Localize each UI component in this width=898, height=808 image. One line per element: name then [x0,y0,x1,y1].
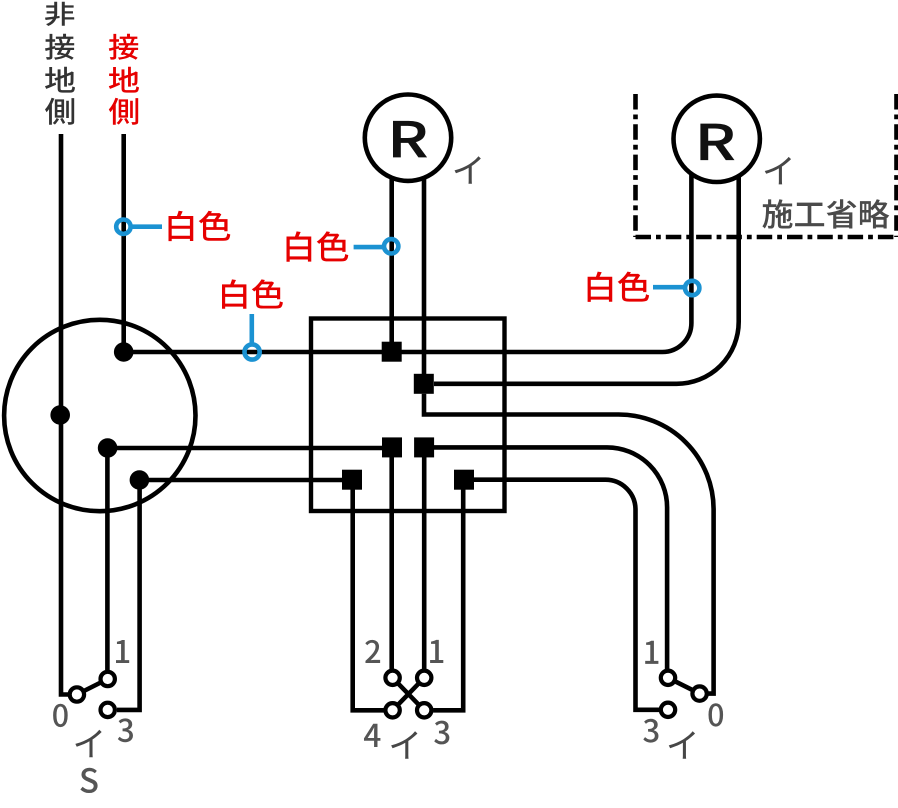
label white-color #4 (red) [588,272,649,302]
pin number 1 4-way [430,640,443,663]
white-conductor marker leader line (vertical) [250,314,255,344]
label non-grounded char 2 [45,34,74,60]
wire 4-way switch terminal 4 lead [353,480,384,710]
label white-color #1 (red) [168,211,230,241]
lamp R2 letter R [700,124,734,161]
4-way switch terminal 3 [417,703,431,717]
terminal square: lamp leads junction [414,374,434,394]
lamp R2 (round lampholder) circle [674,96,760,182]
junction dot: traveler 1 [98,438,118,458]
junction dot: hot line [50,405,70,425]
white-conductor marker leader line [653,285,684,290]
lamp R1 letter R [393,121,427,158]
junction dot: neutral tap [114,342,134,362]
wire 4-way switch terminal 3 lead [433,480,463,710]
label circuit-i for lamp R2 [765,157,791,185]
pin number 1 right switch [645,641,658,664]
label non-grounded char 4 [45,98,74,125]
pin number 4 4-way [364,724,380,747]
terminal square: neutral / lamp R1 white [382,342,402,362]
white-conductor marker ring on lamp R2 white lead [685,281,699,295]
4-way switch terminal 2 [385,671,399,685]
pin number 1 switch S [116,640,129,663]
junction box (outlet box) [311,319,505,512]
right 3-way switch lever [668,678,700,694]
wire 4-way switch terminal 1 lead [422,457,427,669]
label circuit-i for 4-way switch [391,731,417,759]
terminal square: traveler 4-way terminal 3 [454,470,474,490]
4-way switch terminal 1 [417,671,431,685]
white-conductor marker ring on lamp R1 white lead [384,239,398,253]
label grounded-side char 1 (red) [109,34,138,60]
terminal square: traveler to 4-way terminal 2 [382,437,402,457]
switch S (3-way) lever [77,679,108,695]
lamp R1 (round lampholder) circle [365,95,451,181]
white-conductor marker ring on neutral supply [116,220,130,234]
construction-omitted area boundary (dash-dot) [636,94,898,237]
wire traveler: switch S terminal 3 to 4-way terminal 4 [117,480,352,710]
4-way switch terminal 4 [385,703,399,717]
switch S terminal 0 [70,687,84,701]
label S switch designator [80,768,97,793]
label circuit-i for right switch [669,731,695,759]
right 3-way switch terminal 1 [661,671,675,685]
switch S terminal 3 [101,703,115,717]
terminal square: traveler to 4-way terminal 4 [342,470,362,490]
wire traveler: switch S terminal 1 to 4-way terminal 2 [107,448,392,670]
pin number 3 right switch [643,719,658,743]
wire 4-way switch terminal 2 lead [389,457,394,669]
label white-color #2 (red) [222,279,283,308]
pin number 0 switch S [53,704,68,727]
pin number 2 4-way [365,640,380,663]
white-conductor marker leader line [354,245,383,250]
4-way switch crossed levers [393,678,425,711]
label grounded-side char 3 (red) [109,98,138,125]
pin number 3 4-way [434,721,449,745]
wire non-grounded (hot) supply line down to switch S terminal 0 [61,134,68,695]
wire lamp R2 right lead to terminal square [434,172,739,384]
label hi (non-grounded) char 1 [45,2,74,26]
wire lamp node to 3-way switch terminal 0 (right bend) [424,394,714,694]
pin number 3 switch S [118,718,133,742]
label white-color #3 (red) [286,231,348,261]
power source outlet circle (junction) [4,320,195,511]
label circuit-i for switch S [75,730,101,758]
wire grounded (neutral) supply line down to junction dot [121,134,126,352]
wire lamp R1 left (white) lead [389,172,394,342]
label non-grounded char 3 [45,67,75,93]
wire lamp R1 right lead to terminal square [422,172,427,374]
pin number 0 right switch [709,703,724,726]
white-conductor marker ring on neutral run [245,344,260,359]
label construction omitted [762,199,889,228]
terminal square: traveler 4-way terminal 1 [414,437,434,457]
wire traveler: 4-way terminal 1 to right 3-way terminal 1 [424,447,667,669]
label circuit-i for lamp R1 [455,156,481,184]
right 3-way switch terminal 0 [692,686,706,700]
junction dot: traveler 3 [130,470,150,490]
right 3-way switch terminal 3 [661,703,675,717]
label grounded-side char 2 (red) [109,67,139,93]
wire neutral run: junction dot to lamps (white conductor) [124,172,692,352]
wire traveler: 4-way terminal 3 to right 3-way terminal 3 [464,480,659,710]
white-conductor marker leader line [132,224,163,229]
switch S terminal 1 [101,672,115,686]
